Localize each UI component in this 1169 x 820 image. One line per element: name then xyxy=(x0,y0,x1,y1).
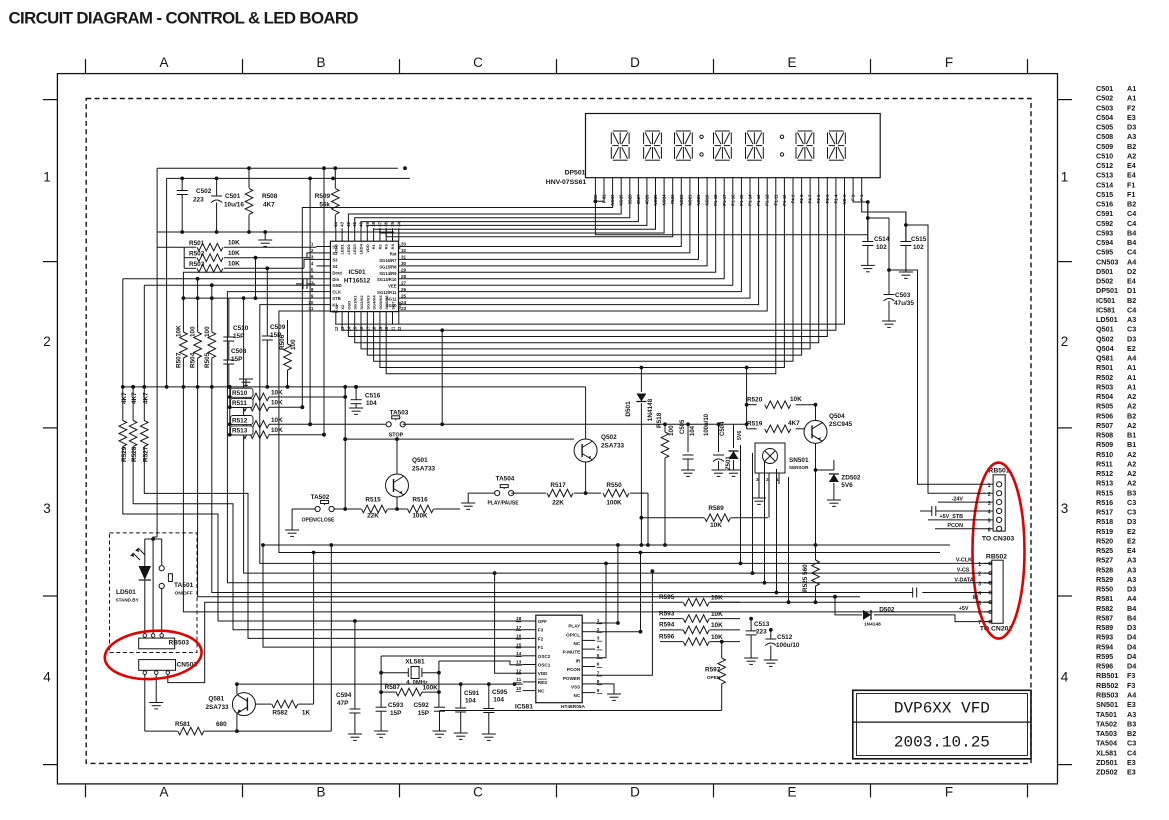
svg-text:R528: R528 xyxy=(131,446,138,462)
svg-text:C502: C502 xyxy=(196,188,212,195)
wire display pin 26 to IC501 bottom pin 16 xyxy=(361,197,810,349)
capacitor C594 xyxy=(354,621,356,709)
resistor R503 xyxy=(184,267,196,269)
svg-text:R517: R517 xyxy=(1096,508,1113,517)
wire display pin 16 to IC501 right pin 28 xyxy=(399,197,725,279)
svg-text:D: D xyxy=(630,55,640,70)
svg-text:HNV-07SS61: HNV-07SS61 xyxy=(546,179,587,186)
svg-text:R527: R527 xyxy=(142,446,149,462)
svg-text:2SA733: 2SA733 xyxy=(205,704,229,711)
svg-text:B4: B4 xyxy=(1127,238,1136,247)
svg-text:R515: R515 xyxy=(1096,488,1113,497)
svg-text:104: 104 xyxy=(366,400,377,407)
svg-text:R502: R502 xyxy=(1096,373,1113,382)
svg-text:NC: NC xyxy=(538,689,545,694)
svg-text:LED1: LED1 xyxy=(340,243,345,254)
svg-text:STAND.BY: STAND.BY xyxy=(116,598,139,603)
wire RES bus xyxy=(455,683,523,685)
svg-text:104: 104 xyxy=(493,697,504,704)
wire XL581 left rail xyxy=(380,656,382,707)
capacitor C514 xyxy=(862,241,873,243)
svg-text:F3: F3 xyxy=(1127,681,1135,690)
svg-text:LED2: LED2 xyxy=(346,243,351,254)
wire left rail from bus xyxy=(157,168,184,247)
grid row ticks xyxy=(43,99,58,101)
wire display pin 3 net xyxy=(302,197,612,408)
svg-text:Din: Din xyxy=(332,277,339,282)
svg-text:SG12/R11: SG12/R11 xyxy=(377,290,397,295)
capacitor C501 xyxy=(216,178,218,196)
wire display pin 21 to IC501 right pin 23 xyxy=(399,197,768,312)
resistor R501 xyxy=(184,246,196,248)
svg-text:4K7: 4K7 xyxy=(263,202,275,209)
svg-text:28: 28 xyxy=(401,274,407,279)
resistor R525 xyxy=(815,545,817,560)
wire display pin 11 to IC501 right pin 33 xyxy=(399,197,682,247)
resistor R527 xyxy=(143,285,145,420)
svg-text:10K: 10K xyxy=(790,396,802,403)
svg-text:D501: D501 xyxy=(625,401,632,417)
svg-text:C595: C595 xyxy=(492,689,508,696)
svg-text:C504: C504 xyxy=(720,421,726,436)
svg-text:PCON: PCON xyxy=(567,667,581,672)
svg-text:C512: C512 xyxy=(777,634,793,641)
svg-text:C4: C4 xyxy=(1127,209,1136,218)
svg-text:R501: R501 xyxy=(1096,363,1113,372)
wire display pin 8 to IC501 top pin 38 xyxy=(374,197,656,230)
svg-text:R581: R581 xyxy=(175,721,191,728)
wire display pin 32 to C515 xyxy=(862,197,906,242)
wire display pin 23 to IC501 bottom pin 19 xyxy=(380,197,785,368)
svg-text:ON/OFF: ON/OFF xyxy=(175,591,193,597)
svg-text:+5V: +5V xyxy=(959,606,969,612)
wire display pin 25 to IC501 bottom pin 17 xyxy=(367,197,801,356)
svg-text:R589: R589 xyxy=(708,505,724,512)
resistor R594 xyxy=(660,629,683,631)
svg-text:TA504: TA504 xyxy=(1096,739,1117,748)
wire F1 feed to IC581 xyxy=(263,545,523,647)
svg-text:2SC945: 2SC945 xyxy=(829,421,853,428)
svg-text:D3: D3 xyxy=(1127,334,1136,343)
svg-text:38: 38 xyxy=(371,221,376,226)
svg-text:E2: E2 xyxy=(1127,537,1136,546)
svg-text:47P: 47P xyxy=(337,700,349,707)
svg-text:R511: R511 xyxy=(232,400,247,407)
svg-text:DP501: DP501 xyxy=(565,170,586,177)
svg-text:3: 3 xyxy=(43,501,51,516)
svg-text:8: 8 xyxy=(311,287,314,292)
wire Q502 base row xyxy=(345,438,574,440)
wire Q504 collector xyxy=(815,405,817,421)
wire key column R512 feed xyxy=(309,178,311,424)
dashed block LD501/TA501 xyxy=(110,533,198,653)
svg-text:3: 3 xyxy=(311,255,314,260)
svg-text:E4: E4 xyxy=(1127,546,1136,555)
svg-text:C501: C501 xyxy=(225,193,241,200)
svg-text:34: 34 xyxy=(396,221,401,226)
svg-text:RB501: RB501 xyxy=(1096,671,1118,680)
svg-text:R513: R513 xyxy=(232,428,248,435)
red circle highlight RB501 RB502 xyxy=(973,463,1025,639)
svg-text:R519: R519 xyxy=(747,421,763,428)
svg-text:Q504: Q504 xyxy=(1096,344,1114,353)
grid column ticks xyxy=(85,59,87,74)
svg-text:R502: R502 xyxy=(189,251,205,258)
wire R550 down to bus xyxy=(647,493,649,545)
svg-text:10K: 10K xyxy=(711,622,723,629)
IC501 top pins 44-34 xyxy=(335,228,337,241)
svg-text:C: C xyxy=(473,785,483,800)
resistor R597 xyxy=(721,642,723,658)
svg-text:C510: C510 xyxy=(233,325,249,332)
svg-text:C503: C503 xyxy=(1096,103,1113,112)
switch TA501 xyxy=(161,539,163,565)
wire display pin 18 to IC501 right pin 26 xyxy=(399,197,742,292)
wire display pin 9 to IC501 top pin 37 xyxy=(380,197,664,234)
svg-text:1: 1 xyxy=(311,242,314,247)
svg-text:GND: GND xyxy=(332,283,341,288)
wire Q502 base feed vertical xyxy=(344,387,346,509)
svg-text:C513: C513 xyxy=(1096,171,1113,180)
resistor R587 xyxy=(381,691,396,693)
svg-text:SG1/K1: SG1/K1 xyxy=(353,295,358,310)
wire display pin 7 to IC501 top pin 39 xyxy=(367,197,647,229)
svg-text:100K: 100K xyxy=(412,513,428,520)
svg-text:10K: 10K xyxy=(228,261,240,268)
svg-text:SG6/K6: SG6/K6 xyxy=(384,295,389,310)
svg-text:A: A xyxy=(159,785,168,800)
resistor R512 xyxy=(230,423,243,425)
LED LD501 xyxy=(144,539,146,566)
svg-text:4K7: 4K7 xyxy=(142,392,149,404)
svg-text:OSC2: OSC2 xyxy=(538,654,551,659)
svg-text:A3: A3 xyxy=(1127,710,1136,719)
svg-text:R505: R505 xyxy=(204,352,211,368)
capacitor C505 xyxy=(687,424,689,452)
svg-text:D1: D1 xyxy=(1127,286,1136,295)
svg-text:VDD: VDD xyxy=(365,244,370,253)
svg-text:4K7: 4K7 xyxy=(131,392,138,404)
svg-text:CN503: CN503 xyxy=(1096,257,1118,266)
svg-text:C501: C501 xyxy=(1096,84,1113,93)
svg-text:D4: D4 xyxy=(1127,633,1136,642)
border frame xyxy=(57,74,1057,784)
wire R501 rail xyxy=(183,247,185,268)
wire Q581 bottom bus xyxy=(237,730,331,732)
svg-text:CLK: CLK xyxy=(332,290,341,295)
svg-text:10K: 10K xyxy=(711,594,723,601)
svg-text:26: 26 xyxy=(401,287,407,292)
DP501 pin leads and pin labels xyxy=(594,178,596,197)
svg-text:NC: NC xyxy=(574,693,581,698)
svg-text:2SA733: 2SA733 xyxy=(601,443,625,450)
svg-text:R3: R3 xyxy=(384,243,389,249)
svg-text:A2: A2 xyxy=(1127,402,1136,411)
svg-text:C515: C515 xyxy=(911,236,927,243)
svg-text:A3: A3 xyxy=(1127,315,1136,324)
svg-text:R504: R504 xyxy=(190,352,197,368)
wire Q581 collector xyxy=(236,714,238,731)
red circle highlight CN503 xyxy=(103,628,203,683)
svg-text:6: 6 xyxy=(311,274,314,279)
svg-text:R593: R593 xyxy=(1096,633,1113,642)
svg-text:IC501: IC501 xyxy=(1096,296,1115,305)
svg-text:16: 16 xyxy=(516,634,522,640)
capacitor C515 xyxy=(900,241,911,243)
wire XL581 right rail xyxy=(438,661,440,707)
svg-text:R525 560: R525 560 xyxy=(802,564,809,592)
svg-text:RB503: RB503 xyxy=(1096,691,1118,700)
svg-text:Rst: Rst xyxy=(390,251,397,256)
svg-text:DVP6XX VFD: DVP6XX VFD xyxy=(894,700,990,718)
ground TA502 xyxy=(292,508,316,510)
svg-text:C515: C515 xyxy=(1096,190,1113,199)
svg-text:A1: A1 xyxy=(1127,373,1136,382)
wire display pin 30 to IC501 bottom pin 12 xyxy=(336,197,845,325)
resistor R515 xyxy=(334,508,361,510)
svg-text:TA502: TA502 xyxy=(1096,719,1117,728)
switch TA503 xyxy=(386,422,391,427)
wire IC581 pin5 vertical xyxy=(595,563,606,657)
svg-text:A1: A1 xyxy=(1127,382,1136,391)
wire right vertical 5 xyxy=(788,477,790,602)
capacitor C595 xyxy=(488,684,490,708)
resistor R581 xyxy=(145,730,178,732)
svg-text:PCON: PCON xyxy=(947,523,963,529)
wire IC501 left pin 5 run xyxy=(183,272,945,612)
svg-text:R596: R596 xyxy=(1096,662,1113,671)
svg-text:B: B xyxy=(316,55,325,70)
capacitor C513 xyxy=(750,619,752,631)
svg-text:IR: IR xyxy=(973,595,978,601)
wire VDD drop xyxy=(495,573,523,673)
resistor R529 xyxy=(122,279,124,421)
svg-text:D502: D502 xyxy=(879,607,895,614)
svg-text:Q502: Q502 xyxy=(601,434,617,441)
svg-text:NC: NC xyxy=(574,641,581,646)
wire under IC581 xyxy=(440,710,722,712)
svg-text:LED3: LED3 xyxy=(352,243,357,254)
wire IC501 left pin 8 run xyxy=(227,292,950,583)
svg-text:C508: C508 xyxy=(231,348,247,355)
svg-text:C4: C4 xyxy=(1127,248,1136,257)
svg-text:10K: 10K xyxy=(271,417,283,424)
svg-text:B1: B1 xyxy=(1127,431,1136,440)
svg-text:+5V_STB: +5V_STB xyxy=(939,514,963,520)
svg-text:PLAY/PAUSE: PLAY/PAUSE xyxy=(487,501,519,507)
wires RB502 feeds xyxy=(940,562,992,564)
svg-text:A2: A2 xyxy=(1127,421,1136,430)
svg-text:TA502: TA502 xyxy=(311,494,330,501)
svg-text:IR: IR xyxy=(576,658,581,663)
svg-text:4: 4 xyxy=(311,261,314,266)
svg-text:100u/10: 100u/10 xyxy=(704,413,710,436)
wire top bus xyxy=(157,167,398,169)
svg-text:35: 35 xyxy=(390,221,395,226)
svg-text:D3: D3 xyxy=(1127,517,1136,526)
svg-text:A4: A4 xyxy=(1127,257,1136,266)
wire display pin 4 to IC501 top pin 42 xyxy=(348,197,621,229)
wire XL581 to OSC1 pin xyxy=(439,661,523,665)
resistor R510 xyxy=(230,396,243,398)
svg-text:D3: D3 xyxy=(1127,123,1136,132)
svg-text:C510: C510 xyxy=(1096,151,1113,160)
resistor R520 xyxy=(747,404,757,406)
wire R510 rail xyxy=(229,387,231,435)
wire IC581 pin7 vertical xyxy=(595,571,652,675)
svg-text:B4: B4 xyxy=(1127,614,1136,623)
wire Q501 emitter up xyxy=(396,439,398,474)
wire Q504 emitter xyxy=(815,443,817,545)
capacitor C504 xyxy=(718,424,720,452)
svg-text:C3: C3 xyxy=(1127,325,1136,334)
svg-text:4K7: 4K7 xyxy=(788,420,800,427)
svg-text:2003.10.25: 2003.10.25 xyxy=(894,734,990,752)
wire R519 R520 feed vertical xyxy=(746,368,748,429)
svg-text:B3: B3 xyxy=(1127,488,1136,497)
switch TA502 xyxy=(315,506,320,511)
svg-text:D2: D2 xyxy=(1127,267,1136,276)
svg-text:R517: R517 xyxy=(550,482,566,489)
svg-text:11: 11 xyxy=(516,677,521,683)
wire C503 feed xyxy=(868,217,889,219)
wire RES bus to Q581 xyxy=(237,683,455,685)
svg-text:15P: 15P xyxy=(390,710,402,717)
svg-text:102: 102 xyxy=(913,244,924,251)
capacitor C516 xyxy=(354,385,358,389)
wire LD501 top bus xyxy=(145,538,162,540)
svg-text:A4: A4 xyxy=(1127,691,1136,700)
svg-text:15: 15 xyxy=(516,642,522,648)
svg-text:223: 223 xyxy=(193,197,204,204)
wire display pin 6 to IC501 top pin 40 xyxy=(361,197,638,229)
svg-text:104: 104 xyxy=(690,425,696,436)
capacitor C512 xyxy=(770,630,772,639)
svg-text:1N4148: 1N4148 xyxy=(647,398,654,421)
wire display pin 14 to IC501 right pin 30 xyxy=(399,197,708,266)
svg-text:10K: 10K xyxy=(271,427,283,434)
svg-text:C509: C509 xyxy=(270,324,286,331)
svg-text:R1: R1 xyxy=(371,243,376,249)
resistor R509 xyxy=(334,168,336,188)
svg-text:Q501: Q501 xyxy=(1096,325,1114,334)
svg-text:9: 9 xyxy=(311,293,314,298)
wire display pin 12 to IC501 right pin 32 xyxy=(399,197,690,253)
svg-text:R509: R509 xyxy=(1096,440,1113,449)
IC501 bottom pins 12-22 xyxy=(335,312,337,325)
svg-text:R520: R520 xyxy=(747,397,763,404)
wire Q501 collector down xyxy=(396,497,398,509)
svg-text:A2: A2 xyxy=(1127,469,1136,478)
svg-text:IC581: IC581 xyxy=(515,704,533,711)
title block box xyxy=(853,690,1031,759)
svg-text:Q581: Q581 xyxy=(208,696,224,703)
svg-text:B4: B4 xyxy=(1127,604,1136,613)
svg-text:1: 1 xyxy=(43,170,51,185)
IC581 right pins 1-9 xyxy=(582,622,595,624)
connector RB503 xyxy=(139,638,175,649)
svg-text:OFF: OFF xyxy=(538,619,547,624)
svg-text:TA501: TA501 xyxy=(1096,710,1117,719)
wire Q502 emitter drop xyxy=(585,462,587,493)
svg-text:VDD: VDD xyxy=(538,671,548,676)
svg-text:B3: B3 xyxy=(1127,719,1136,728)
svg-text:D3: D3 xyxy=(1127,623,1136,632)
svg-text:X2: X2 xyxy=(340,304,345,310)
resistor R506 xyxy=(287,320,289,344)
svg-text:A2: A2 xyxy=(1127,450,1136,459)
svg-text:R507: R507 xyxy=(175,352,182,368)
svg-text:R505: R505 xyxy=(1096,402,1113,411)
wire right vertical 1 xyxy=(740,445,742,563)
svg-text:680: 680 xyxy=(216,721,227,728)
svg-text:LD501: LD501 xyxy=(116,589,136,596)
wire right vertical 4 xyxy=(776,469,778,593)
wire R502 branch to matrix xyxy=(255,258,257,298)
diode D502 xyxy=(835,597,862,615)
svg-text:TA501: TA501 xyxy=(174,582,194,589)
svg-text:C592: C592 xyxy=(1096,219,1113,228)
svg-text:C504: C504 xyxy=(1096,113,1113,122)
wire display pin 29 to IC501 bottom pin 13 xyxy=(342,197,836,331)
svg-text:B1: B1 xyxy=(1127,440,1136,449)
svg-text:R508: R508 xyxy=(262,193,278,200)
svg-text:10u/16: 10u/16 xyxy=(224,202,244,209)
svg-text:SG2/K2: SG2/K2 xyxy=(359,295,364,310)
svg-text:R518: R518 xyxy=(1096,517,1113,526)
svg-text:C594: C594 xyxy=(1096,238,1113,247)
svg-text:A2: A2 xyxy=(1127,479,1136,488)
svg-text:SG16/R7: SG16/R7 xyxy=(379,258,397,263)
svg-text:A3: A3 xyxy=(1127,575,1136,584)
svg-text:100: 100 xyxy=(290,339,297,350)
svg-text:TA504: TA504 xyxy=(496,476,515,483)
svg-text:24: 24 xyxy=(401,300,407,305)
svg-text:E4: E4 xyxy=(1127,171,1136,180)
svg-text:R512: R512 xyxy=(232,417,248,424)
svg-text:22K: 22K xyxy=(552,500,564,507)
svg-text:B2: B2 xyxy=(1127,200,1136,209)
svg-text:11: 11 xyxy=(309,306,314,311)
svg-text:R550: R550 xyxy=(606,482,622,489)
ground under C508 xyxy=(245,379,247,387)
svg-text:E: E xyxy=(787,785,796,800)
svg-text:100: 100 xyxy=(668,425,675,436)
svg-text:A2: A2 xyxy=(1127,392,1136,401)
svg-text:SG7: SG7 xyxy=(391,301,396,310)
svg-text:R587: R587 xyxy=(385,684,401,691)
svg-text:F1: F1 xyxy=(538,645,544,650)
svg-text:B2: B2 xyxy=(1127,142,1136,151)
svg-text:B2: B2 xyxy=(1127,411,1136,420)
svg-text:TA503: TA503 xyxy=(390,410,409,417)
svg-text:2: 2 xyxy=(1061,334,1069,349)
wire XL581 to OSC2 pin xyxy=(381,655,523,657)
wire IC501 left pin 6 run xyxy=(198,279,860,597)
svg-text:2SA733: 2SA733 xyxy=(412,466,436,473)
wire R527 to IC581 xyxy=(144,447,523,639)
svg-text:9: 9 xyxy=(597,688,600,694)
svg-text:C593: C593 xyxy=(1096,228,1113,237)
svg-text:D4: D4 xyxy=(1127,662,1136,671)
wire display pin 31 to C514 xyxy=(853,197,868,242)
svg-text:F3: F3 xyxy=(538,628,544,633)
wire display pin 22 to IC501 bottom pin 20 xyxy=(386,197,776,374)
svg-text:C591: C591 xyxy=(1096,209,1113,218)
connector CN503 xyxy=(139,660,176,671)
wire right vertical 3 xyxy=(764,461,766,583)
svg-text:R527: R527 xyxy=(1096,556,1113,565)
